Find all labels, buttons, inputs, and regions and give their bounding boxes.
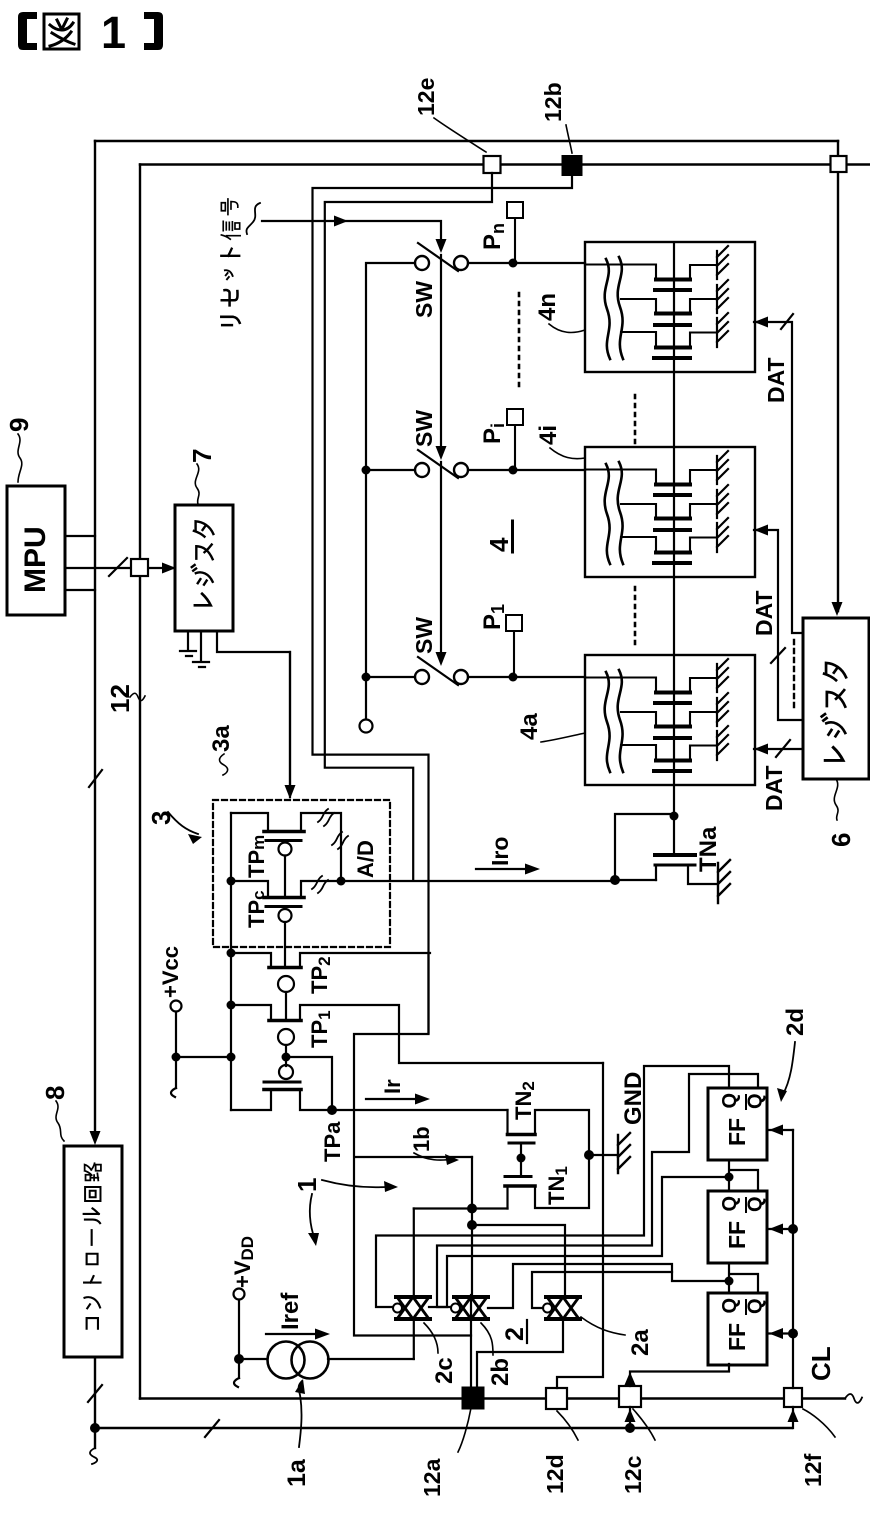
svg-text:+Vcc: +Vcc xyxy=(158,946,183,998)
svg-text:3a: 3a xyxy=(208,725,235,752)
svg-text:1: 1 xyxy=(292,1178,322,1192)
svg-text:1b: 1b xyxy=(409,1126,434,1152)
svg-text:Ir: Ir xyxy=(380,1079,405,1094)
svg-text:12c: 12c xyxy=(620,1455,646,1494)
svg-text:2a: 2a xyxy=(627,1329,654,1356)
svg-text:4: 4 xyxy=(484,537,514,552)
svg-text:7: 7 xyxy=(187,449,217,463)
svg-text:A/D: A/D xyxy=(353,840,378,878)
svg-text:MPU: MPU xyxy=(19,526,52,593)
svg-text:4a: 4a xyxy=(516,713,543,740)
svg-text:3: 3 xyxy=(146,811,176,825)
svg-text:12a: 12a xyxy=(419,1458,445,1497)
svg-text:6: 6 xyxy=(826,833,856,847)
svg-text:2c: 2c xyxy=(431,1357,458,1384)
svg-text:2b: 2b xyxy=(487,1358,514,1386)
svg-text:12f: 12f xyxy=(800,1453,826,1487)
svg-text:2d: 2d xyxy=(782,1008,809,1036)
svg-text:4i: 4i xyxy=(535,425,562,445)
svg-text:DAT: DAT xyxy=(761,765,787,811)
svg-text:DAT: DAT xyxy=(751,590,777,636)
svg-text:Iro: Iro xyxy=(487,837,513,866)
svg-text:TPa: TPa xyxy=(320,1121,345,1162)
svg-text:12e: 12e xyxy=(413,78,439,116)
svg-text:1a: 1a xyxy=(283,1458,311,1487)
svg-text:2: 2 xyxy=(501,1327,529,1341)
svg-text:12b: 12b xyxy=(540,82,566,122)
svg-text:12: 12 xyxy=(105,684,135,713)
svg-text:SW: SW xyxy=(411,281,437,318)
svg-text:1: 1 xyxy=(101,7,126,58)
svg-text:DAT: DAT xyxy=(763,357,789,403)
svg-text:Iref: Iref xyxy=(277,1292,304,1330)
svg-text:4n: 4n xyxy=(534,293,561,321)
svg-text:9: 9 xyxy=(4,418,34,432)
svg-text:SW: SW xyxy=(411,617,437,654)
svg-text:8: 8 xyxy=(40,1086,70,1100)
svg-text:CL: CL xyxy=(806,1346,836,1381)
svg-text:SW: SW xyxy=(411,410,437,447)
svg-text:TNa: TNa xyxy=(695,826,722,872)
svg-text:12d: 12d xyxy=(542,1454,568,1494)
